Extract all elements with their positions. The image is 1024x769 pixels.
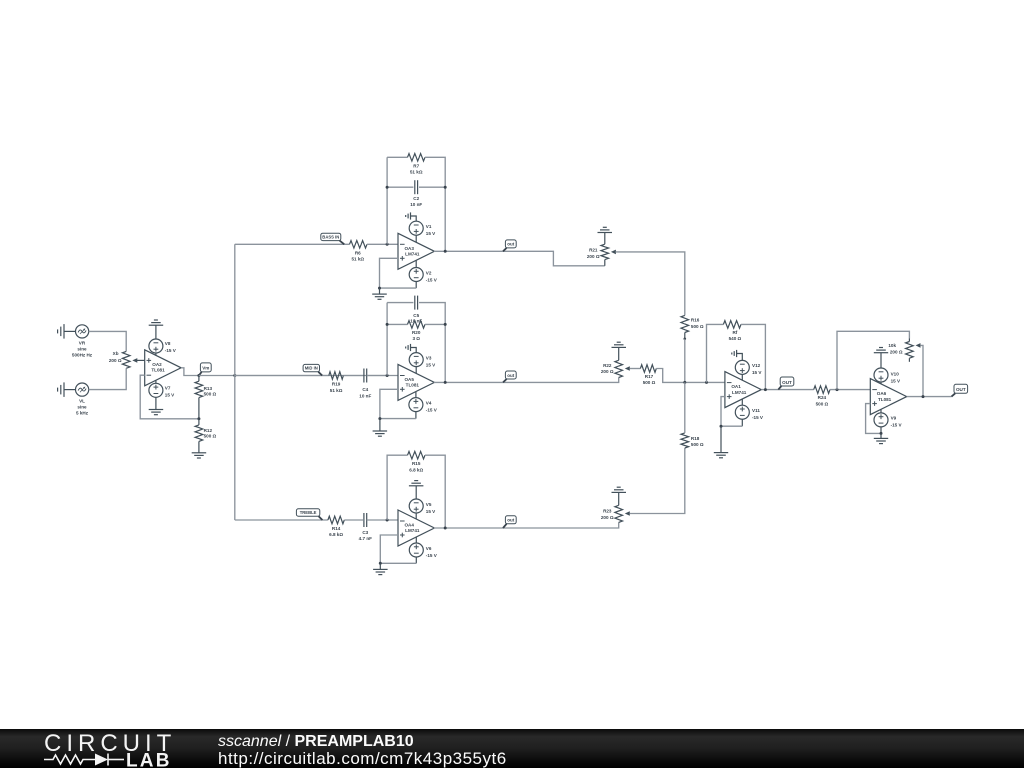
svg-text:Vm: Vm xyxy=(202,366,209,371)
supply V4 -15V xyxy=(409,391,438,418)
wire summing bus upper xyxy=(684,382,686,433)
svg-text:V5: V5 xyxy=(426,502,432,507)
svg-text:LM741: LM741 xyxy=(405,528,420,533)
wire C3 to OA4 xyxy=(367,519,398,521)
svg-text:540 Ω: 540 Ω xyxy=(729,336,742,341)
svg-text:C5: C5 xyxy=(413,313,419,318)
resistor R24 500 xyxy=(814,386,830,407)
capacitor C4 10nF xyxy=(359,369,371,399)
svg-text:R15: R15 xyxy=(412,461,421,466)
resistor Rf 540 xyxy=(723,321,741,342)
svg-text:R13: R13 xyxy=(204,386,213,391)
wire C5 rail right xyxy=(419,303,445,383)
junction Vm node xyxy=(197,374,200,377)
wire treble input xyxy=(235,519,328,521)
wire OA6 output xyxy=(907,396,952,398)
svg-text:200 Ω: 200 Ω xyxy=(601,515,614,520)
svg-text:15 V: 15 V xyxy=(426,509,436,514)
wire Vm to mid channel xyxy=(199,375,387,377)
op-amp OA5 TL081 xyxy=(398,364,434,400)
wire C4 to OA5 xyxy=(367,375,398,377)
junction R13-R12 xyxy=(197,417,200,420)
junction R20 left xyxy=(386,323,389,326)
supply V7 15V xyxy=(149,380,175,409)
svg-text:-15 V: -15 V xyxy=(752,415,764,420)
svg-text:OUT: OUT xyxy=(956,387,966,392)
svg-text:10 nF: 10 nF xyxy=(359,394,371,399)
wire C2 rail left xyxy=(387,186,413,188)
svg-text:-15 V: -15 V xyxy=(426,277,438,282)
ground (OA6 +input) xyxy=(874,433,888,443)
svg-text:500 Ω: 500 Ω xyxy=(691,324,704,329)
junction OA4 plus ground xyxy=(379,562,382,565)
capacitor C2 10nF xyxy=(410,180,422,207)
svg-text:5 kHz: 5 kHz xyxy=(76,411,89,416)
ground (above V1) xyxy=(406,212,417,221)
svg-text:sine: sine xyxy=(77,347,87,352)
node flag TREBLE xyxy=(296,509,322,520)
footer bar xyxy=(0,729,1024,768)
svg-text:C4: C4 xyxy=(362,387,368,392)
ground (above R21) xyxy=(598,227,613,244)
ground (OA4 +input) xyxy=(373,563,388,574)
op-amp OA6 TL081 xyxy=(870,379,906,415)
wire OA6 noninverting to ground xyxy=(866,404,881,434)
op-amp OA4 LM741 xyxy=(398,510,434,546)
wire bass output xyxy=(434,251,605,265)
resistor R15 6.8k xyxy=(408,451,426,472)
svg-text:15 V: 15 V xyxy=(165,393,175,398)
wire OA6 feedback xyxy=(837,331,909,389)
node flag Vm xyxy=(199,363,211,376)
wire OA2 output xyxy=(181,368,199,376)
svg-text:500 Ω: 500 Ω xyxy=(204,434,217,439)
svg-text:R21: R21 xyxy=(589,248,598,253)
svg-text:VL: VL xyxy=(79,399,85,404)
ground (above V8) xyxy=(149,320,164,339)
wire R14 to C3 xyxy=(344,519,363,521)
op-amp OA3 LM741 xyxy=(398,233,434,269)
wire OA4 noninverting to ground xyxy=(380,535,416,563)
svg-text:-15 V: -15 V xyxy=(165,348,177,353)
svg-text:OA3: OA3 xyxy=(404,246,414,251)
svg-text:OA5: OA5 xyxy=(404,377,414,382)
svg-text:out: out xyxy=(507,518,514,523)
wire treble output xyxy=(434,522,619,528)
potentiometer R21 200 xyxy=(587,244,616,266)
node flag out (treble) xyxy=(503,516,516,528)
svg-text:-15 V: -15 V xyxy=(426,407,438,412)
svg-text:500 Ω: 500 Ω xyxy=(816,401,829,406)
svg-text:MID IN: MID IN xyxy=(305,366,318,371)
svg-text:R16: R16 xyxy=(691,318,700,323)
svg-text:51 kΩ: 51 kΩ xyxy=(351,257,364,262)
junction OA1 plus ground xyxy=(720,425,723,428)
junction below R16 xyxy=(684,338,687,341)
junction mid output xyxy=(444,381,447,384)
svg-text:out: out xyxy=(507,242,514,247)
svg-text:LM741: LM741 xyxy=(732,390,747,395)
junction R20 right xyxy=(444,323,447,326)
junction bass inverting node xyxy=(386,243,389,246)
wire mid feedback left xyxy=(386,303,388,376)
resistor R14 6.8k xyxy=(328,516,344,537)
wire R24 to OA6 xyxy=(830,389,870,391)
svg-text:OUT: OUT xyxy=(782,380,792,385)
wire R17 to summing node xyxy=(656,369,725,383)
svg-text:R14: R14 xyxy=(332,526,341,531)
resistor R18 500 xyxy=(681,433,704,448)
wire R23 wiper to bus xyxy=(630,448,685,514)
voltage source VL sine 5kHz xyxy=(76,383,89,416)
CircuitLab logo xyxy=(40,728,240,768)
svg-text:51 kΩ: 51 kΩ xyxy=(330,388,343,393)
svg-text:OA6: OA6 xyxy=(877,391,887,396)
svg-text:C2: C2 xyxy=(413,196,419,201)
ground (above V10) xyxy=(874,348,888,369)
svg-text:500 Ω: 500 Ω xyxy=(643,380,656,385)
potentiometer R22 200 xyxy=(601,360,630,377)
svg-text:R18: R18 xyxy=(691,436,700,441)
svg-text:out: out xyxy=(507,373,514,378)
wire C5 rail left xyxy=(387,302,413,304)
supply V2 -15V xyxy=(409,260,438,288)
svg-text:R12: R12 xyxy=(204,428,213,433)
wire R6 to OA3 xyxy=(367,243,398,245)
wire VL to Xb xyxy=(89,368,127,389)
svg-text:TL081: TL081 xyxy=(406,383,420,388)
svg-text:V8: V8 xyxy=(165,341,171,346)
svg-text:R19: R19 xyxy=(332,382,341,387)
svg-text:TREBLE: TREBLE xyxy=(300,510,317,515)
capacitor C5 10nF xyxy=(410,296,422,324)
wire VR to Xb xyxy=(89,331,127,351)
junction OA1 output xyxy=(764,388,767,391)
junction treble output xyxy=(444,527,447,530)
supply V3 15V xyxy=(409,353,436,374)
svg-text:V12: V12 xyxy=(752,363,761,368)
resistor R13 500 xyxy=(195,376,216,419)
svg-text:500Hz Hz: 500Hz Hz xyxy=(72,353,93,358)
wire OA1 output xyxy=(761,389,813,391)
svg-text:15 V: 15 V xyxy=(426,362,436,367)
svg-text:Xb: Xb xyxy=(113,351,119,356)
svg-text:10k: 10k xyxy=(888,343,896,348)
wire bass R7 rail right xyxy=(425,157,445,251)
resistor R20 3ohm xyxy=(408,321,426,342)
junction summing node bus xyxy=(683,381,686,384)
svg-text:TL081: TL081 xyxy=(878,397,892,402)
wire R20 rail right xyxy=(425,323,445,325)
voltage source VR sine 500Hz xyxy=(72,325,93,358)
svg-text:200 Ω: 200 Ω xyxy=(587,254,600,259)
svg-text:V10: V10 xyxy=(891,371,900,376)
junction mid inverting node xyxy=(386,374,389,377)
svg-text:V4: V4 xyxy=(426,400,432,405)
wire bass feedback left xyxy=(386,157,388,244)
wire R20 rail left xyxy=(387,323,407,325)
junction C2 right xyxy=(444,186,447,189)
svg-text:OA1: OA1 xyxy=(731,384,741,389)
wire OA5 noninverting to ground xyxy=(380,389,416,418)
wire OA1 noninverting to ground xyxy=(721,397,742,427)
supply V5 15V xyxy=(409,499,436,519)
svg-text:LAB: LAB xyxy=(126,751,172,769)
wire OA1 feedback left xyxy=(707,324,724,382)
resistor R17 500 xyxy=(640,365,656,385)
junction summing node feedback xyxy=(705,381,708,384)
ground (above R23) xyxy=(612,487,627,505)
resistor R16 500 xyxy=(681,315,704,338)
footer text xyxy=(218,733,414,751)
svg-text:OA2: OA2 xyxy=(152,362,162,367)
svg-text:200 Ω: 200 Ω xyxy=(109,358,122,363)
wire R16 to summing node xyxy=(684,339,686,383)
ground (OA5 +input) xyxy=(373,419,388,437)
wire C2 rail right xyxy=(419,186,445,188)
ground (VR source) xyxy=(58,324,76,339)
supply V1 15V xyxy=(409,221,436,242)
ground (OA1 +input) xyxy=(714,426,728,458)
wire treble feedback right xyxy=(425,455,445,528)
wire OA3 noninverting to ground xyxy=(380,258,417,288)
ground (above V3) xyxy=(406,344,417,353)
svg-text:V1: V1 xyxy=(426,224,432,229)
svg-text:15 V: 15 V xyxy=(426,231,436,236)
junction OA6 output wiper xyxy=(922,395,925,398)
wire 10k wiper to output xyxy=(920,345,923,396)
ground (below R12) xyxy=(192,453,207,458)
wire bass R7 rail left xyxy=(387,156,407,158)
svg-text:4.7 nF: 4.7 nF xyxy=(359,536,372,541)
op-amp OA1 LM741 xyxy=(725,372,761,408)
svg-text:R17: R17 xyxy=(645,374,654,379)
svg-text:R23: R23 xyxy=(603,509,612,514)
svg-text:V7: V7 xyxy=(165,386,171,391)
resistor R7 51k xyxy=(408,154,426,175)
wire OA1 feedback right xyxy=(741,324,765,389)
supply V11 -15V xyxy=(735,399,764,426)
junction OA6 inverting node xyxy=(836,388,839,391)
wire treble feedback left xyxy=(387,455,407,520)
resistor R19 51k xyxy=(329,372,344,393)
svg-text:VR: VR xyxy=(79,341,86,346)
svg-text:R6: R6 xyxy=(355,250,361,255)
svg-text:3 Ω: 3 Ω xyxy=(412,336,420,341)
svg-text:R24: R24 xyxy=(818,395,827,400)
node flag OUT (OA1) xyxy=(778,377,794,390)
potentiometer 10k 200 xyxy=(888,339,920,362)
ground (above R22) xyxy=(612,342,627,360)
potentiometer R23 200 xyxy=(601,505,630,522)
svg-text:6.8 kΩ: 6.8 kΩ xyxy=(329,532,343,537)
wire OA2 feedback xyxy=(140,375,199,419)
node flag out (bass) xyxy=(503,240,516,251)
svg-text:R7: R7 xyxy=(413,163,419,168)
svg-text:-15 V: -15 V xyxy=(891,423,903,428)
svg-text:15 V: 15 V xyxy=(891,378,901,383)
op-amp OA2 TL081 xyxy=(145,350,181,386)
svg-text:V11: V11 xyxy=(752,408,760,413)
node flag BASS IN xyxy=(321,233,345,244)
svg-text:200 Ω: 200 Ω xyxy=(890,350,903,355)
node flag MID IN xyxy=(303,364,322,375)
wire input bus vertical xyxy=(234,244,236,520)
junction C2 left xyxy=(386,186,389,189)
junction treble inverting node xyxy=(386,519,389,522)
capacitor C3 4.7nF xyxy=(359,513,372,541)
svg-text:200 Ω: 200 Ω xyxy=(601,369,614,374)
junction bass output xyxy=(444,250,447,253)
wire R22 wiper to R17 xyxy=(630,368,641,370)
svg-text:V9: V9 xyxy=(891,416,897,421)
node flag OUT (final) xyxy=(952,384,968,396)
svg-text:51 kΩ: 51 kΩ xyxy=(410,170,423,175)
wire bass input xyxy=(235,243,350,245)
svg-text:10 nF: 10 nF xyxy=(410,202,422,207)
svg-text:-15 V: -15 V xyxy=(426,553,438,558)
wire mid output xyxy=(434,378,619,383)
supply V9 -15V xyxy=(874,409,903,433)
junction bus mid wire xyxy=(233,374,236,377)
svg-text:R22: R22 xyxy=(603,363,612,368)
wire mid input xyxy=(235,375,329,377)
svg-text:V2: V2 xyxy=(426,270,432,275)
resistor R12 500 xyxy=(195,419,216,453)
wire R21 wiper to R16 xyxy=(616,252,685,316)
svg-text:6.8 kΩ: 6.8 kΩ xyxy=(409,467,423,472)
svg-text:sine: sine xyxy=(77,405,87,410)
supply V12 15V xyxy=(735,360,762,380)
junction OA6 plus ground xyxy=(880,432,883,435)
resistor R6 51k xyxy=(350,241,368,262)
svg-text:TL081: TL081 xyxy=(151,368,165,373)
svg-text:500 Ω: 500 Ω xyxy=(691,442,704,447)
svg-text:OA4: OA4 xyxy=(404,523,414,528)
svg-text:V3: V3 xyxy=(426,355,432,360)
node flag out (mid) xyxy=(503,371,516,382)
supply V10 15V xyxy=(874,368,901,384)
potentiometer Xb 200 xyxy=(109,351,145,368)
svg-text:R20: R20 xyxy=(412,330,421,335)
wire R19 to C4 xyxy=(343,375,363,377)
svg-text:15 V: 15 V xyxy=(752,370,762,375)
svg-text:LM741: LM741 xyxy=(405,252,420,257)
svg-text:500 Ω: 500 Ω xyxy=(204,392,217,397)
svg-text:V6: V6 xyxy=(426,546,432,551)
ground (below V7) xyxy=(149,410,164,415)
junction OA5 plus ground xyxy=(378,417,381,420)
ground (above V12) xyxy=(732,350,743,361)
ground (OA3 +input) xyxy=(372,288,387,299)
ground (above V5) xyxy=(409,481,424,499)
ground (VL source) xyxy=(58,382,76,397)
svg-text:C3: C3 xyxy=(362,530,368,535)
svg-text:BASS IN: BASS IN xyxy=(322,234,339,239)
svg-text:Rf: Rf xyxy=(732,330,737,335)
supply V6 -15V xyxy=(409,537,437,563)
junction OA3 plus ground xyxy=(378,287,381,290)
supply V8 -15V xyxy=(149,339,177,356)
